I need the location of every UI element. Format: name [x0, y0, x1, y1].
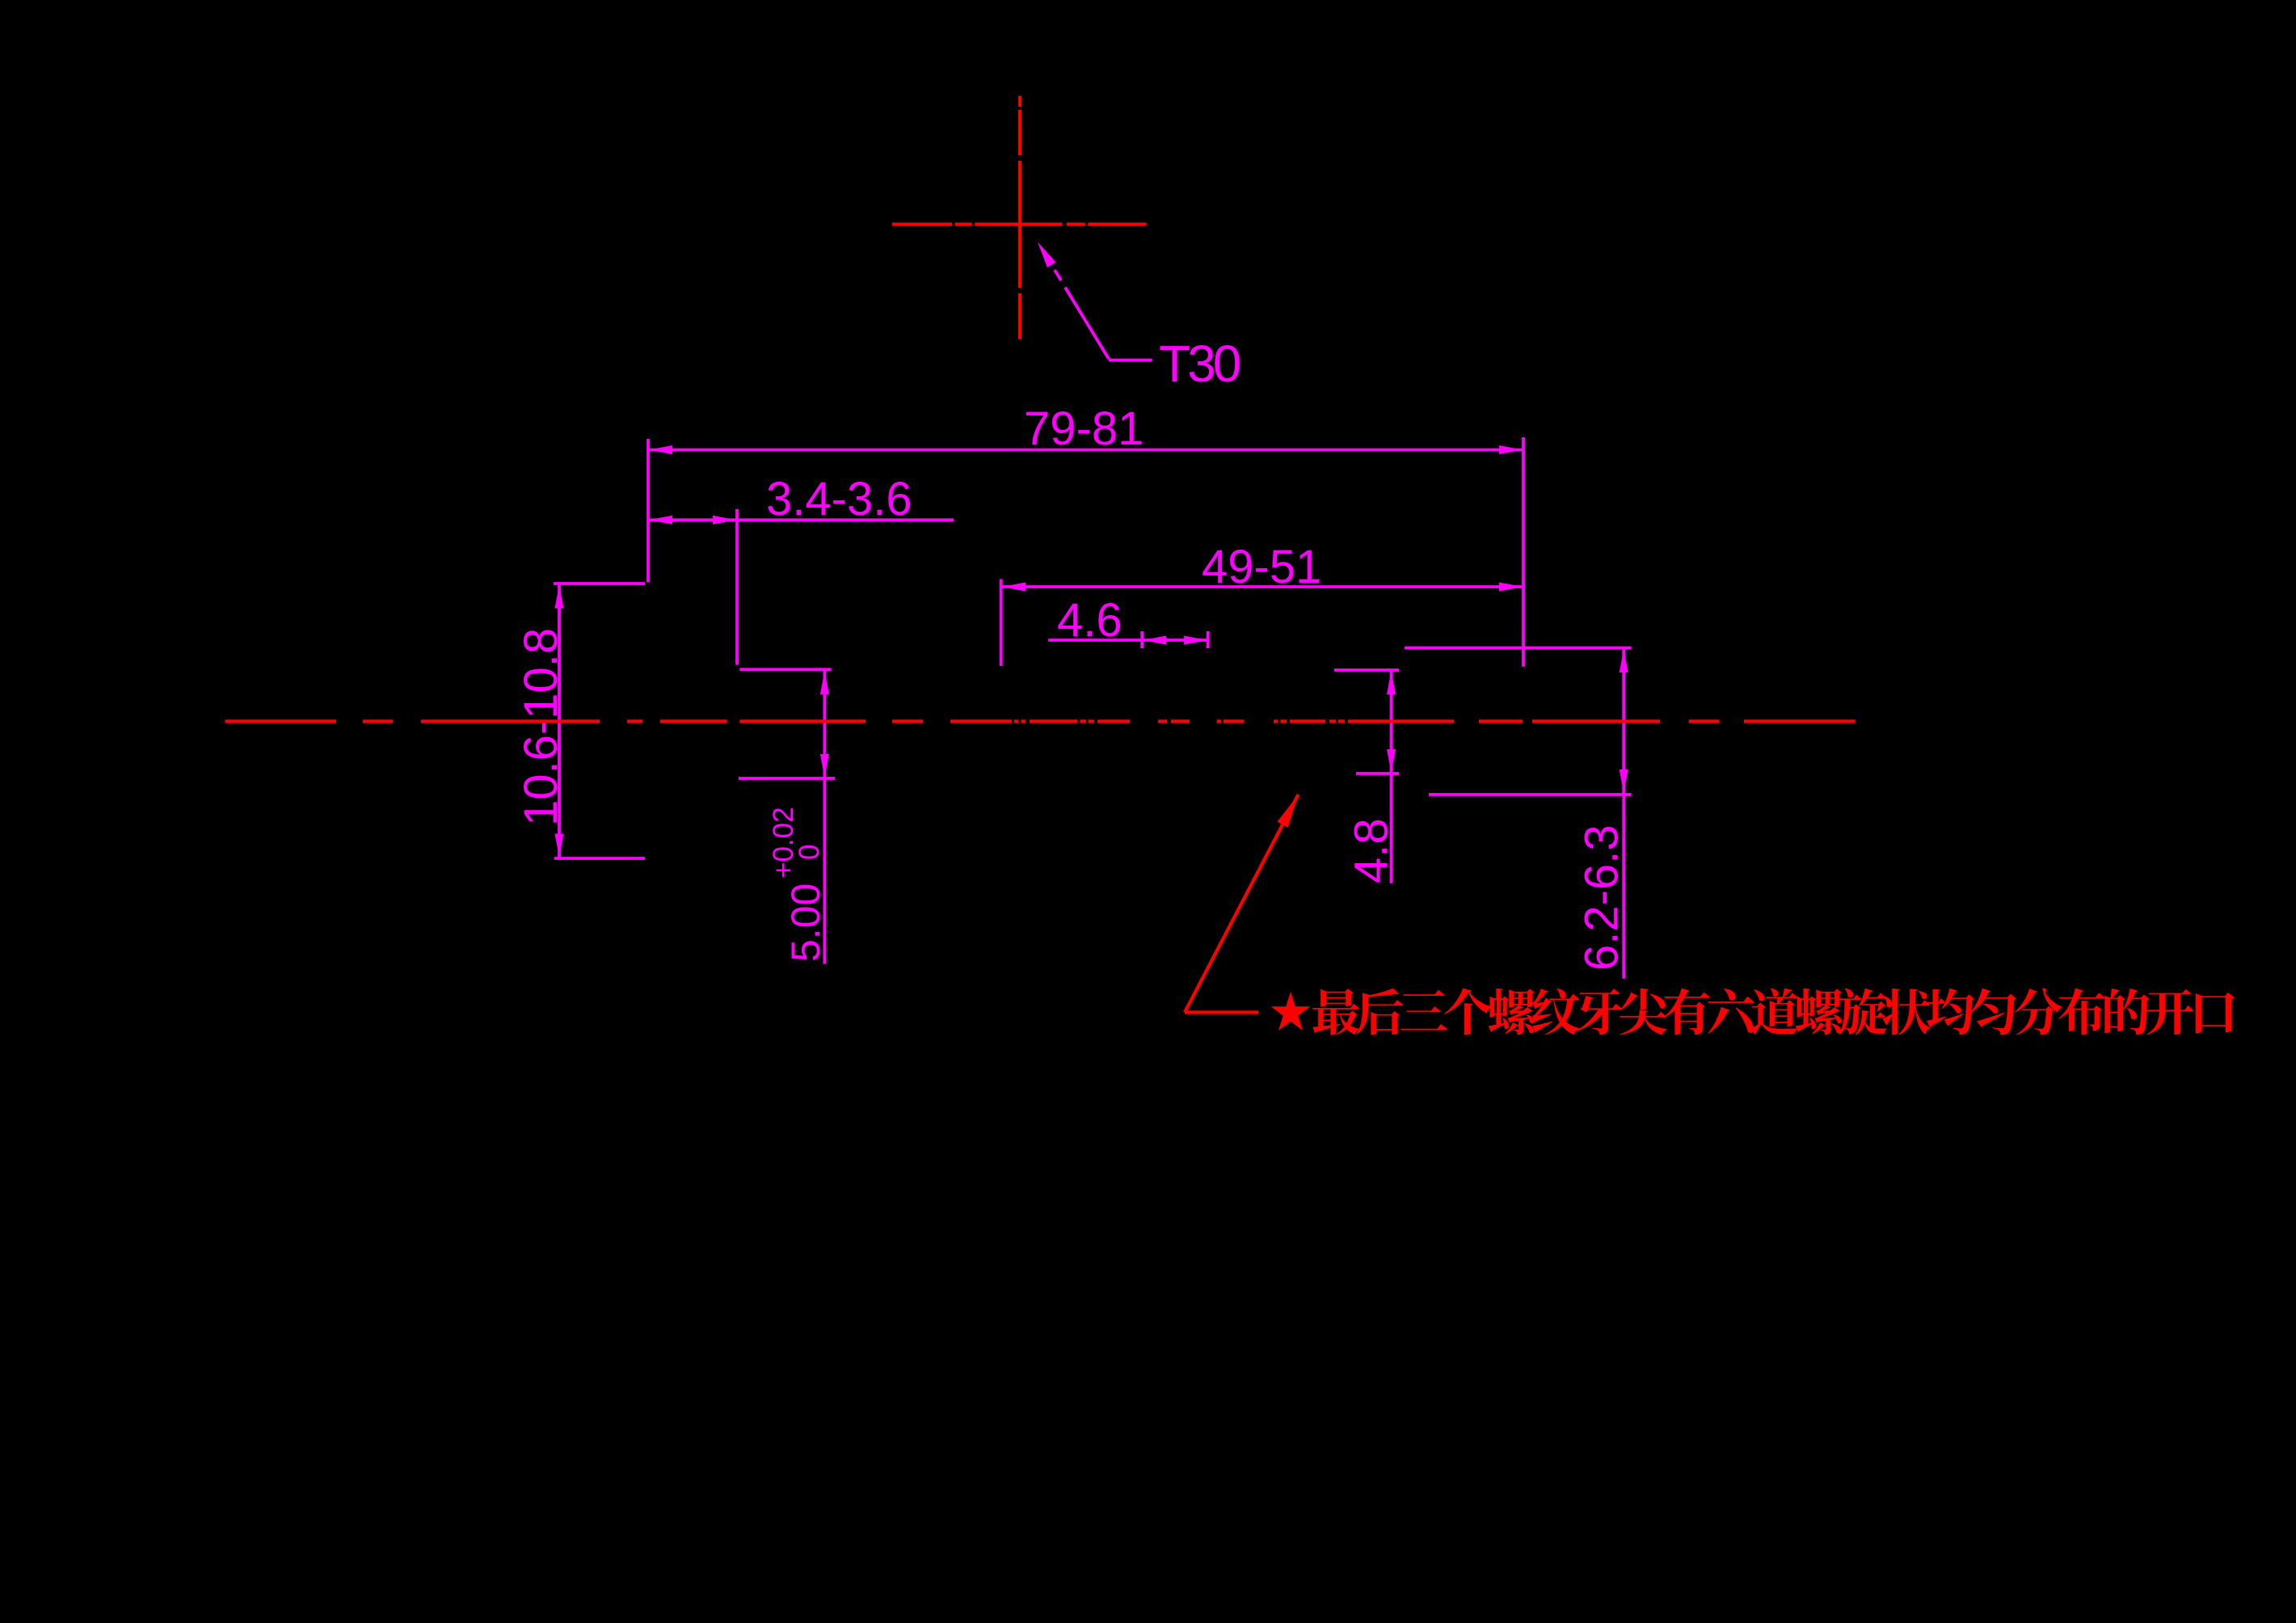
leader T30 arrowhead — [1038, 242, 1056, 268]
dim 6.2-6.3 dimension line — [1622, 649, 1625, 979]
svg-text:4.6: 4.6 — [1057, 594, 1123, 647]
svg-text:+0.02: +0.02 — [768, 807, 799, 879]
note leader arrowhead (red) — [1277, 795, 1298, 828]
dim 5.00 arrow top — [820, 671, 829, 694]
dim 5.00 arrow bottom — [820, 754, 829, 778]
dim 10.6-10.8 extension line bottom (y=1062) — [554, 857, 645, 860]
svg-text:10.6-10.8: 10.6-10.8 — [515, 628, 567, 826]
svg-text:0: 0 — [794, 845, 825, 860]
dim 4.8 extension line top (y=829) — [1334, 668, 1399, 672]
dim 6.2-6.3 arrow top — [1620, 649, 1628, 672]
dim 10.6-10.8 arrow top — [555, 585, 564, 609]
svg-text:4.8: 4.8 — [1346, 818, 1398, 883]
dim 4.6 dimension line — [1048, 639, 1208, 642]
svg-text:T30: T30 — [1159, 335, 1241, 393]
dim 10.6-10.8 arrow bottom — [555, 834, 564, 858]
centerline cross vertical (red) — [1018, 96, 1022, 107]
leader T30 shaft — [1055, 270, 1061, 280]
centerline cross horizontal (red) — [892, 222, 952, 226]
dim 3.4-3.6 dimension line — [648, 518, 954, 521]
dim 6.2-6.3 arrow bottom — [1620, 769, 1628, 793]
dim 49-51 arrow left — [1002, 583, 1026, 592]
dim 4.6 extension tick right (x=1494.7) — [1207, 631, 1210, 648]
svg-text:49-51: 49-51 — [1202, 541, 1321, 593]
main centerline (red, dashed) — [225, 719, 337, 723]
dim 4.8 arrow top — [1387, 671, 1396, 694]
dim 5.00 extension line bottom (y=963) — [739, 777, 835, 780]
dim 5.00 dimension line — [824, 670, 827, 964]
svg-text:5.00: 5.00 — [783, 883, 828, 962]
dim 3.4-3.6 arrow right — [713, 516, 736, 525]
dim 4.6 arrow left — [1143, 636, 1166, 645]
note leader line (red) — [1185, 795, 1299, 1013]
dim 4.8 dimension line — [1390, 671, 1393, 883]
dim 10.6-10.8 extension line top (y=722) — [554, 582, 645, 585]
svg-text:3.4-3.6: 3.4-3.6 — [766, 473, 912, 525]
dim 4.8 extension line bottom (y=957) — [1356, 772, 1399, 775]
dim 4.8 arrow bottom — [1387, 749, 1396, 773]
dim 79-81 arrow left — [649, 445, 672, 454]
dim 79-81 extension line left (x=802) — [647, 439, 650, 583]
dim 5.00 extension line top (y=828.3) — [739, 668, 831, 671]
dim 10.6-10.8 dimension line — [558, 585, 561, 858]
dim 49-51 arrow right — [1499, 583, 1523, 592]
dim 6.2-6.3 extension line top (y=801.5) — [1405, 647, 1632, 650]
note text ★最后三个螺纹牙尖有六道螺旋状均匀分布的开口 (red) — [1271, 988, 2235, 1035]
dim 49-51 dimension line — [1001, 585, 1523, 588]
dim 3.4-3.6 arrow left — [649, 516, 672, 525]
dim 79-81 arrow right — [1499, 445, 1523, 454]
dim 79-81 dimension line — [648, 449, 1523, 452]
svg-text:6.2-6.3: 6.2-6.3 — [1576, 824, 1628, 971]
dim 3.4-3.6 extension line (x=912) — [735, 509, 739, 665]
dim 4.6 extension tick left (x=1413.2) — [1140, 631, 1144, 648]
dim 79-81 extension line right (x=1885) — [1522, 437, 1525, 667]
dim 6.2-6.3 extension line bottom (y=983) — [1429, 793, 1632, 796]
svg-text:79-81: 79-81 — [1024, 403, 1144, 455]
dim 4.6 arrow right — [1184, 636, 1207, 645]
dim 49-51 extension line left (x=1238.7) — [1000, 580, 1003, 666]
